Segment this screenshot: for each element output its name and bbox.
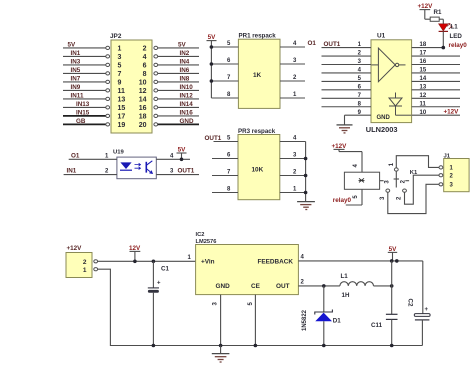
capacitor C2 xyxy=(407,261,431,346)
svg-text:11: 11 xyxy=(118,88,126,95)
svg-text:+: + xyxy=(157,281,161,287)
capacitor C1 xyxy=(148,261,170,345)
wire L1 to 5V node xyxy=(374,285,392,287)
svg-text:15: 15 xyxy=(118,105,126,112)
svg-text:5V: 5V xyxy=(208,34,217,41)
svg-text:U19: U19 xyxy=(113,150,125,156)
wire U1 pin 1 xyxy=(322,47,372,49)
wire U1 pin 18 net relay0 xyxy=(412,47,444,49)
junction 5V bus xyxy=(210,45,214,49)
IC U1 ULN2003 xyxy=(358,33,427,135)
wire U1 pin 7 xyxy=(322,97,372,99)
wire U19 pin1 net O1 xyxy=(69,158,117,160)
svg-text:10K: 10K xyxy=(252,167,264,174)
junction PR3 bus xyxy=(304,191,308,195)
svg-text:OUT1: OUT1 xyxy=(324,41,341,48)
svg-text:2: 2 xyxy=(143,45,147,52)
resistor pack PR3 10K xyxy=(227,128,297,200)
wire K1 contact 3 to J1 pin3 xyxy=(388,184,439,213)
wire JP2 pin 15 net IN13 xyxy=(63,106,110,109)
wire U19 pin3 net OUT1 xyxy=(156,174,199,176)
wire JP2 pin 7 net IN5 xyxy=(63,72,110,75)
svg-text:IN10: IN10 xyxy=(180,84,194,91)
connector J1 xyxy=(439,153,469,191)
wire JP2 pin 6 net IN4 xyxy=(154,63,199,66)
svg-text:1K: 1K xyxy=(253,72,262,79)
svg-text:relay0: relay0 xyxy=(333,197,352,204)
svg-text:LED: LED xyxy=(450,33,463,40)
wire JP2 pin 8 net IN6 xyxy=(154,72,199,75)
wire relay coil to relay0 xyxy=(346,189,362,205)
svg-text:IN11: IN11 xyxy=(71,92,84,99)
svg-text:+12V: +12V xyxy=(444,109,460,116)
junction 5V bus xyxy=(210,79,214,83)
connector JP2 xyxy=(110,33,152,133)
svg-text:LM2576: LM2576 xyxy=(196,239,217,245)
power flag +12V (relay) xyxy=(332,143,348,150)
wire JP2 pin 11 net IN9 xyxy=(63,89,110,92)
wire PR1 pin 8 xyxy=(211,97,238,99)
wire PR3 pin 3 xyxy=(280,158,306,160)
svg-text:O1: O1 xyxy=(71,152,80,159)
diode D1 1N5822 xyxy=(302,286,341,346)
svg-text:IN5: IN5 xyxy=(71,67,81,74)
svg-text:GND: GND xyxy=(377,115,391,121)
power flag 5V (output) xyxy=(388,246,397,261)
wire PR1 pin 5 xyxy=(211,46,238,48)
wire U19 pin2 net IN1 xyxy=(64,174,117,176)
resistor R1 xyxy=(430,9,442,21)
wire P1 pin1 to ground rail xyxy=(98,269,423,345)
svg-text:2: 2 xyxy=(83,259,87,266)
svg-text:IN16: IN16 xyxy=(180,109,194,116)
wire JP2 pin 2 net 5V xyxy=(154,46,199,49)
wire JP2 pin 10 net IN8 xyxy=(154,80,199,83)
inductor L1 1H xyxy=(340,273,374,299)
LED L1 xyxy=(439,23,463,40)
wire PR3 pin 8 xyxy=(212,192,238,194)
wire JP2 pin 9 net IN7 xyxy=(63,80,110,83)
svg-text:IC2: IC2 xyxy=(196,232,205,238)
wire JP2 pin 18 net IN16 xyxy=(154,114,199,117)
wire U1 pin 9 to ground xyxy=(345,115,372,125)
connector P1 +12V input xyxy=(66,245,98,277)
svg-text:R1: R1 xyxy=(434,9,442,16)
svg-text:L1: L1 xyxy=(451,24,459,31)
svg-text:L1: L1 xyxy=(341,273,349,280)
svg-text:16: 16 xyxy=(139,105,147,112)
wire IC2 FEEDBACK pin4 to 5V xyxy=(298,260,422,262)
svg-text:5V: 5V xyxy=(178,41,187,48)
junction 12V xyxy=(133,260,137,264)
wire JP2 pin 17 net IN15 xyxy=(63,114,110,117)
wire U1 pin 5 xyxy=(322,80,372,82)
wire JP2 pin 1 net 5V xyxy=(63,46,110,49)
svg-text:1N5822: 1N5822 xyxy=(302,309,308,331)
ground (main rail) xyxy=(212,346,230,363)
svg-text:14: 14 xyxy=(139,96,147,103)
junction C11 top xyxy=(390,284,394,288)
svg-text:18: 18 xyxy=(139,113,147,120)
diode clamp symbol inside U1 xyxy=(389,93,411,116)
wire K1 contact 2 to J1 pin2 xyxy=(405,175,440,204)
wire PR3 pin 1 xyxy=(280,192,306,194)
svg-text:IN15: IN15 xyxy=(76,109,90,116)
junction D1 top xyxy=(322,284,326,288)
wire U1 pin 11 xyxy=(412,106,460,108)
wire +12V to relay coil xyxy=(339,149,362,172)
junction 5V bus xyxy=(210,62,214,66)
svg-text:IN1: IN1 xyxy=(71,50,81,57)
svg-text:5: 5 xyxy=(118,62,122,69)
wire JP2 pin 3 net IN1 xyxy=(63,55,110,58)
wire PR1 pin 4 xyxy=(280,46,305,48)
wire 5V bus vertical xyxy=(210,41,212,98)
IC2 LM2576 xyxy=(188,232,305,306)
svg-text:IN3: IN3 xyxy=(71,58,81,65)
wire LED to U1 pin18 xyxy=(442,31,444,47)
svg-text:IN13: IN13 xyxy=(76,101,90,108)
svg-text:+12V: +12V xyxy=(67,245,83,252)
wire JP2 pin 19 net GB xyxy=(63,123,110,126)
junction PR3 bus xyxy=(304,174,308,178)
svg-text:OUT1: OUT1 xyxy=(178,168,195,175)
junction GND rail xyxy=(219,344,223,348)
wire U19 pin4 to 5V xyxy=(156,158,190,160)
svg-text:ULN2003: ULN2003 xyxy=(366,125,398,134)
svg-text:20: 20 xyxy=(139,122,147,129)
LED inside U19 xyxy=(120,162,132,170)
ground (U1 pin 9) xyxy=(337,125,353,133)
svg-text:U1: U1 xyxy=(377,33,386,40)
svg-text:1: 1 xyxy=(83,267,87,274)
svg-text:JP2: JP2 xyxy=(110,33,122,40)
svg-text:IN4: IN4 xyxy=(180,58,190,65)
wire PR3 pin 6 xyxy=(212,158,238,160)
wire U1 pin 13 xyxy=(412,89,460,91)
junction D1 bottom xyxy=(322,344,326,348)
relay contacts K1 xyxy=(380,162,418,200)
svg-text:FEEDBACK: FEEDBACK xyxy=(258,258,294,265)
svg-text:17: 17 xyxy=(118,113,126,120)
relay coil K1 pin4/pin5 xyxy=(344,164,379,199)
wire R1 to LED xyxy=(439,19,443,24)
power flag 12V xyxy=(129,245,141,261)
wire IC2 GND pin3 xyxy=(220,295,222,346)
wire K1 common to J1 pin1 xyxy=(396,156,439,168)
power flag +12V (R1) xyxy=(418,3,434,10)
wire JP2 pin 4 net IN2 xyxy=(154,55,199,58)
junction C1 top xyxy=(152,260,156,264)
wire PR3 pin 5 xyxy=(214,141,239,143)
wire U1 pin 12 xyxy=(412,97,460,99)
capacitor C11 xyxy=(371,286,398,346)
wire PR3 pin 4 xyxy=(280,141,306,143)
svg-text:IN1: IN1 xyxy=(67,168,77,175)
svg-text:D1: D1 xyxy=(333,318,341,325)
wire PR1 pin 7 xyxy=(211,80,238,82)
junction C11 bottom xyxy=(390,344,394,348)
wire U1 pin 10 xyxy=(412,114,460,116)
svg-text:8: 8 xyxy=(143,71,147,78)
svg-text:6: 6 xyxy=(143,62,147,69)
wire PR3 ground bus xyxy=(305,142,307,202)
junction relay0 xyxy=(442,46,446,50)
svg-text:7: 7 xyxy=(118,71,122,78)
svg-text:+: + xyxy=(425,307,429,313)
wire JP2 pin 20 net GND xyxy=(154,123,199,126)
svg-text:C2: C2 xyxy=(407,299,414,307)
optocoupler U19 xyxy=(113,150,156,179)
wire PR1 pin 6 xyxy=(211,63,238,65)
wire PR1 pin 3 xyxy=(280,63,305,65)
svg-text:C1: C1 xyxy=(161,266,169,273)
junction C1 bottom xyxy=(152,344,156,348)
wire IC2 OUT pin2 xyxy=(298,285,340,287)
svg-text:1H: 1H xyxy=(342,292,350,299)
svg-text:PR3 respack: PR3 respack xyxy=(238,128,276,135)
svg-text:IN9: IN9 xyxy=(71,84,81,91)
junction PR3 bus xyxy=(304,157,308,161)
svg-text:IN8: IN8 xyxy=(180,75,190,82)
junction 5V xyxy=(180,158,184,162)
wire U1 pin 2 xyxy=(322,55,372,57)
wire U1 pin 16 xyxy=(412,64,460,66)
op-amp buffer symbol inside U1 xyxy=(372,48,406,82)
svg-text:GB: GB xyxy=(76,118,86,125)
svg-text:3: 3 xyxy=(118,54,122,61)
svg-text:13: 13 xyxy=(118,96,126,103)
wire U1 pin 6 xyxy=(322,89,372,91)
wire PR1 pin 1 xyxy=(280,97,305,99)
svg-text:PR1 respack: PR1 respack xyxy=(239,33,277,40)
junction 5V xyxy=(390,259,394,263)
wire JP2 pin 13 net IN11 xyxy=(63,97,110,100)
svg-text:IN7: IN7 xyxy=(71,75,81,82)
svg-text:GND: GND xyxy=(216,283,231,290)
wire PR3 pin 7 xyxy=(212,175,238,177)
power flag 5V (PR1 bus) xyxy=(207,34,217,41)
wire PR1 pin 2 xyxy=(280,80,305,82)
svg-text:CE: CE xyxy=(251,283,261,290)
svg-text:IN2: IN2 xyxy=(180,50,190,57)
svg-text:4: 4 xyxy=(143,54,147,61)
wire IC2 CE pin5 xyxy=(254,295,256,346)
wire JP2 pin 16 net IN14 xyxy=(154,106,199,109)
wire JP2 pin 14 net IN12 xyxy=(154,97,199,100)
wire P1 pin2 to IC2 +Vin xyxy=(98,260,196,262)
svg-text:9: 9 xyxy=(118,79,122,86)
wire JP2 pin 12 net IN10 xyxy=(154,89,199,92)
svg-text:OUT: OUT xyxy=(276,283,290,290)
wire U1 pin 15 xyxy=(412,72,460,74)
svg-text:O1: O1 xyxy=(308,40,317,47)
phototransistor inside U19 xyxy=(146,161,152,174)
svg-text:C11: C11 xyxy=(371,322,383,329)
power flag 5V (U19) xyxy=(177,147,187,160)
svg-text:IN12: IN12 xyxy=(180,92,194,99)
junction CE rail xyxy=(254,344,258,348)
svg-text:12: 12 xyxy=(139,88,147,95)
light arrows inside U19 xyxy=(135,163,141,169)
svg-text:5V: 5V xyxy=(68,41,77,48)
wire PR3 pin 2 xyxy=(280,175,306,177)
wire U1 pin 14 xyxy=(412,80,460,82)
svg-text:IN14: IN14 xyxy=(180,101,194,108)
wire JP2 pin 5 net IN3 xyxy=(63,63,110,66)
svg-text:1: 1 xyxy=(118,45,122,52)
svg-text:GND: GND xyxy=(180,118,194,125)
svg-text:19: 19 xyxy=(118,122,126,129)
wire U1 pin 17 xyxy=(412,55,460,57)
resistor pack PR1 1K xyxy=(227,33,297,109)
svg-text:+Vin: +Vin xyxy=(201,258,215,265)
wire 5V vertical (FEEDBACK to OUT) xyxy=(391,261,393,286)
wire U1 pin 3 xyxy=(322,64,372,66)
wire U1 pin 8 xyxy=(322,106,372,108)
wire +12V to R1 xyxy=(425,10,430,20)
svg-text:OUT1: OUT1 xyxy=(205,135,222,142)
svg-text:relay0: relay0 xyxy=(449,42,468,49)
ground (PR3) xyxy=(297,202,315,210)
svg-text:10: 10 xyxy=(139,79,147,86)
svg-text:IN6: IN6 xyxy=(180,67,190,74)
wire U1 pin 4 xyxy=(322,72,372,74)
